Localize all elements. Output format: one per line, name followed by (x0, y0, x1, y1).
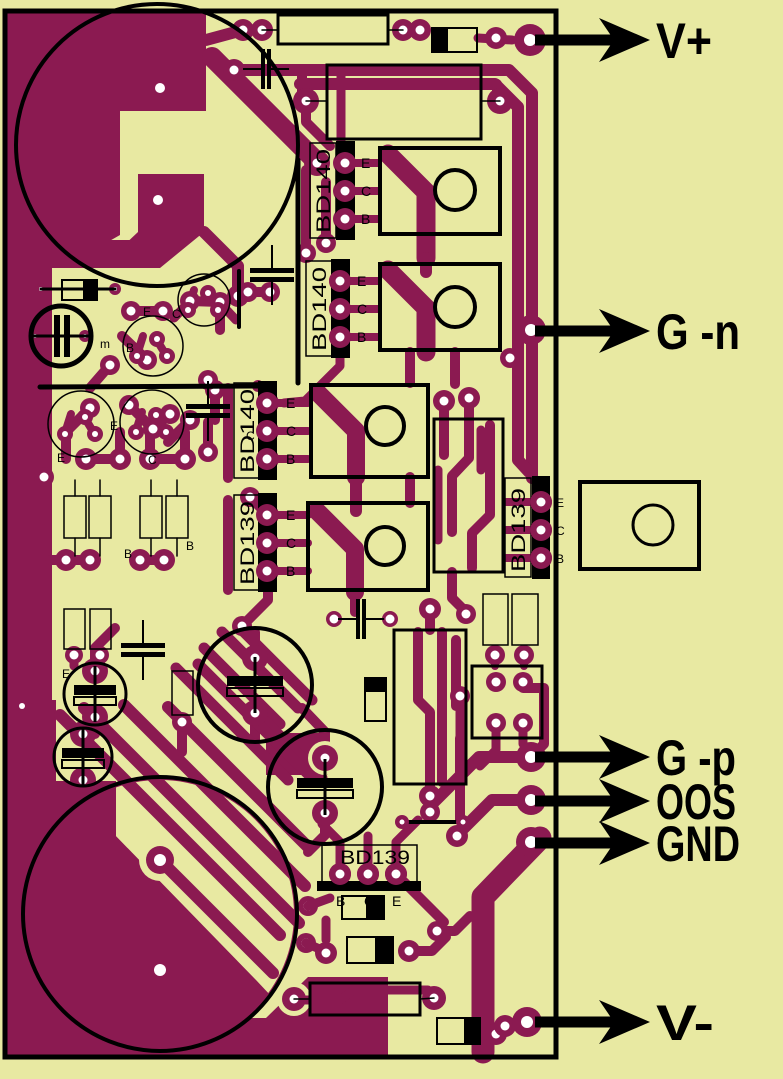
svg-text:C: C (148, 453, 157, 467)
svg-text:C: C (357, 301, 367, 317)
svg-text:BD139: BD139 (238, 501, 259, 585)
svg-text:V+: V+ (656, 13, 712, 69)
svg-text:m: m (100, 337, 110, 351)
svg-text:C: C (364, 893, 374, 909)
svg-text:B: B (361, 211, 370, 227)
svg-text:G -n: G -n (656, 304, 740, 360)
svg-text:E: E (110, 419, 118, 433)
svg-text:B: B (357, 329, 366, 345)
svg-text:BD140: BD140 (314, 149, 335, 233)
svg-text:E: E (57, 451, 65, 465)
svg-text:B: B (186, 539, 194, 553)
svg-text:E: E (286, 507, 295, 523)
svg-text:B: B (124, 547, 132, 561)
svg-text:B: B (286, 563, 295, 579)
svg-text:E: E (392, 893, 401, 909)
svg-text:V-: V- (656, 995, 714, 1051)
svg-text:GND: GND (656, 816, 740, 872)
svg-text:B: B (556, 552, 564, 566)
svg-text:C: C (556, 524, 565, 538)
svg-text:BD140: BD140 (310, 267, 331, 351)
svg-text:C: C (246, 429, 255, 443)
svg-text:B: B (126, 341, 134, 355)
svg-text:B: B (286, 451, 295, 467)
svg-text:E: E (143, 305, 151, 319)
svg-text:E: E (62, 667, 70, 681)
svg-text:E: E (361, 155, 370, 171)
svg-text:BD139: BD139 (509, 488, 530, 572)
svg-text:C: C (286, 423, 296, 439)
svg-text:E: E (556, 496, 564, 510)
svg-text:C: C (361, 183, 371, 199)
svg-text:E: E (357, 273, 366, 289)
svg-text:C: C (172, 307, 181, 321)
svg-text:C: C (286, 535, 296, 551)
svg-text:E: E (286, 395, 295, 411)
svg-text:B: B (336, 893, 345, 909)
